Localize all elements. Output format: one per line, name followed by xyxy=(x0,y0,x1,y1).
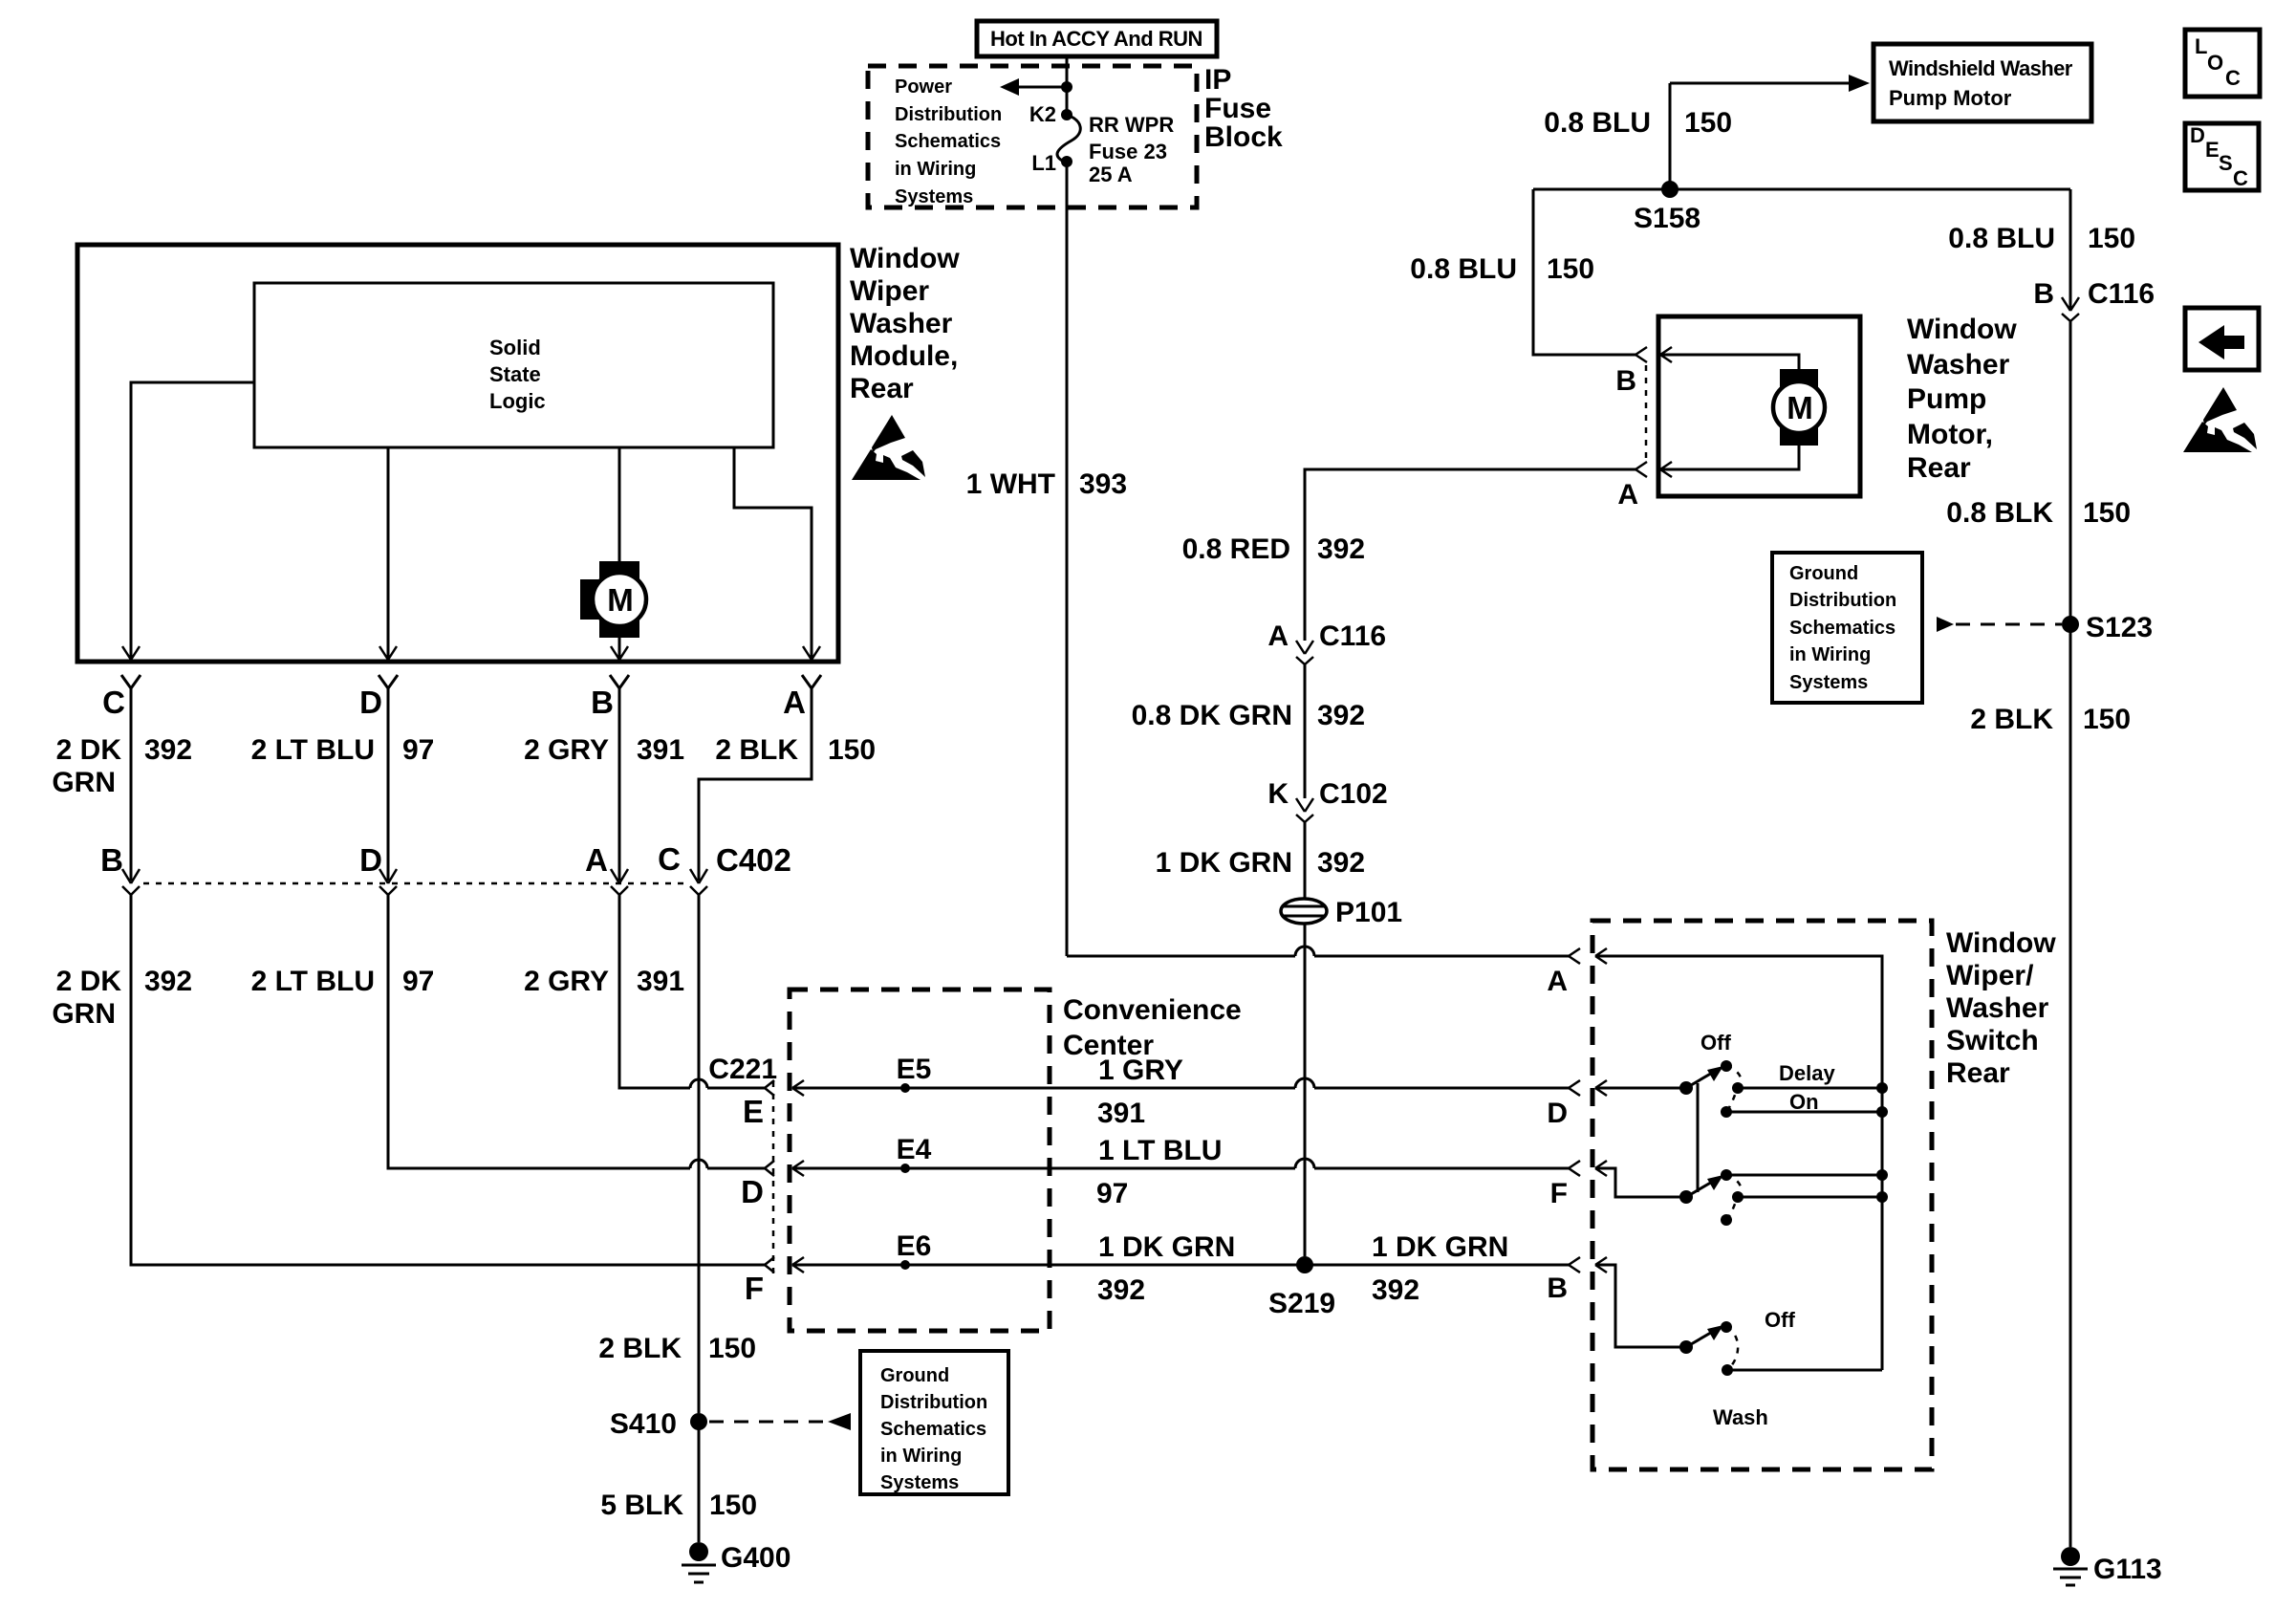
box Hot In ACCY And RUN xyxy=(977,21,1217,56)
wire 2 DK GRN 392 (C to C402-B) xyxy=(130,688,133,881)
dotted arc wash contacts xyxy=(1726,1327,1738,1370)
svg-text:0.8 RED: 0.8 RED xyxy=(1182,533,1290,565)
svg-text:Rear: Rear xyxy=(850,373,914,404)
svg-text:Distribution: Distribution xyxy=(895,104,1002,125)
wire 1 DK GRN 392 xyxy=(1304,822,1307,899)
contact Off (wash) xyxy=(1721,1308,1795,1333)
icon back-arrow box xyxy=(2185,308,2259,370)
svg-text:E: E xyxy=(2205,138,2220,162)
connector C221 pin F xyxy=(745,1257,774,1306)
svg-text:Washer: Washer xyxy=(1907,349,2010,381)
ground G113 xyxy=(2053,1547,2162,1585)
svg-text:Off: Off xyxy=(1700,1031,1731,1055)
svg-text:Module,: Module, xyxy=(850,340,958,372)
wire riser from S158 xyxy=(1669,83,1672,189)
svg-text:A: A xyxy=(585,842,608,878)
connector pin A (pump motor) xyxy=(1617,462,1647,511)
svg-text:150: 150 xyxy=(1684,107,1732,139)
svg-text:0.8 BLU: 0.8 BLU xyxy=(1544,107,1651,139)
svg-text:97: 97 xyxy=(1096,1178,1128,1209)
svg-text:Ground: Ground xyxy=(1789,563,1858,584)
svg-text:B: B xyxy=(1615,365,1636,397)
svg-text:Switch: Switch xyxy=(1946,1025,2039,1056)
svg-text:Window: Window xyxy=(850,243,960,274)
wire 2 LT BLU 97 (D to C402-D) xyxy=(387,688,390,881)
svg-text:E5: E5 xyxy=(897,1054,932,1085)
svg-text:392: 392 xyxy=(1097,1274,1145,1306)
svg-text:Pump: Pump xyxy=(1907,383,1986,415)
node S410 xyxy=(610,1408,707,1440)
label 1 DK GRN 392 (left of S219) xyxy=(1097,1231,1235,1306)
svg-text:Window: Window xyxy=(1907,314,2017,345)
svg-text:GRN: GRN xyxy=(52,767,116,798)
wire pump internal B xyxy=(1660,347,1799,381)
ground distribution reference box (left) xyxy=(860,1351,1008,1494)
connector C102 pin K xyxy=(1267,778,1387,822)
svg-text:Windshield Washer: Windshield Washer xyxy=(1889,56,2073,80)
contact On xyxy=(1721,1090,1882,1118)
svg-text:Motor,: Motor, xyxy=(1907,419,1993,450)
connector dashed line between pump pins xyxy=(1645,365,1648,460)
svg-text:A: A xyxy=(783,685,806,720)
svg-text:2 DK: 2 DK xyxy=(56,734,122,766)
wire 1 DK GRN below P101 to S219 xyxy=(1304,924,1307,1256)
node wiper switch common 1 xyxy=(1679,1081,1693,1095)
connector C221 pin E xyxy=(743,1080,774,1129)
connector Y pin A below module xyxy=(783,675,821,720)
switch lever 2 xyxy=(1686,1175,1723,1197)
wire arrow to power distribution (left) xyxy=(1000,78,1067,96)
label 2 DK GRN 392 xyxy=(52,734,192,798)
svg-text:392: 392 xyxy=(1317,533,1365,565)
connector C402 pin A xyxy=(585,842,628,895)
svg-text:391: 391 xyxy=(637,966,684,997)
svg-text:Off: Off xyxy=(1765,1308,1795,1332)
wire switch pin B internal xyxy=(1595,1257,1686,1347)
svg-text:97: 97 xyxy=(402,966,434,997)
wire row E4 1 LT BLU 97 xyxy=(792,1159,1569,1176)
svg-text:Systems: Systems xyxy=(895,186,973,207)
contact low (pole 2) xyxy=(1721,1214,1732,1226)
svg-text:2 LT BLU: 2 LT BLU xyxy=(251,734,375,766)
connector switch pin D xyxy=(1547,1080,1580,1129)
svg-text:Block: Block xyxy=(1204,121,1283,153)
wire row E6 1 DK GRN 392 xyxy=(792,1257,1569,1273)
svg-text:P101: P101 xyxy=(1335,897,1402,928)
label RR WPR Fuse 23 25 A xyxy=(1089,113,1174,186)
switch lever 3 (wash) xyxy=(1686,1325,1723,1347)
svg-text:On: On xyxy=(1789,1090,1819,1114)
wire arrow to windshield washer pump motor xyxy=(1670,75,1870,92)
node E5 xyxy=(897,1054,932,1093)
svg-text:2 GRY: 2 GRY xyxy=(524,966,609,997)
svg-text:5 BLK: 5 BLK xyxy=(600,1490,683,1521)
svg-text:C102: C102 xyxy=(1319,778,1388,810)
svg-text:K2: K2 xyxy=(1029,102,1056,126)
svg-text:Wiper/: Wiper/ xyxy=(1946,960,2034,991)
box Window Wiper Washer Module Rear xyxy=(77,245,838,662)
svg-text:E6: E6 xyxy=(897,1230,932,1262)
wire row E5 1 GRY 391 xyxy=(792,1078,1569,1096)
svg-text:Window: Window xyxy=(1946,927,2056,959)
wire 0.8 RED 392 from pump A xyxy=(1305,469,1635,641)
svg-text:0.8 BLK: 0.8 BLK xyxy=(1946,497,2053,529)
svg-text:S219: S219 xyxy=(1268,1288,1335,1319)
connector C402 pin B xyxy=(100,842,140,895)
node S123 xyxy=(2062,612,2153,643)
wire pump internal A xyxy=(1660,435,1799,477)
wire 1 WHT 393 vertical from fuse L1 xyxy=(1066,162,1069,956)
icon ESD warning (right margin) xyxy=(2183,387,2257,452)
svg-text:C402: C402 xyxy=(716,842,791,878)
wire 2 GRY 391 (C402-A down to row E) xyxy=(619,895,765,1088)
label 0.8 BLU 150 (right column) xyxy=(1948,223,2135,254)
label 2 BLK 150 (right column) xyxy=(1970,704,2131,735)
svg-text:Pump Motor: Pump Motor xyxy=(1889,86,2012,110)
wire 2 DK GRN 392 (C402-B down to row F) xyxy=(131,895,765,1265)
svg-text:D: D xyxy=(359,842,382,878)
svg-text:Fuse 23: Fuse 23 xyxy=(1089,140,1167,163)
wire 5 BLK 150 xyxy=(698,1422,701,1542)
label 1 GRY 391 xyxy=(1097,1055,1183,1129)
wire 0.8 DK GRN 392 xyxy=(1304,664,1307,798)
dotted arc wiper contacts xyxy=(1726,1066,1741,1112)
svg-text:150: 150 xyxy=(828,734,876,766)
label 0.8 DK GRN 392 xyxy=(1132,700,1365,731)
svg-text:2 BLK: 2 BLK xyxy=(598,1333,682,1364)
svg-text:392: 392 xyxy=(1372,1274,1419,1306)
wire 1 WHT 393 horizontal to switch A xyxy=(1067,946,1569,956)
svg-text:C116: C116 xyxy=(1319,620,1386,652)
wire 2 BLK 150 (C402-C down to S410) xyxy=(698,895,701,1413)
svg-text:State: State xyxy=(489,362,541,386)
dashed box Window Wiper/Washer Switch Rear xyxy=(1592,921,1932,1469)
contact top (pole 2) xyxy=(1721,1169,1882,1181)
svg-text:D: D xyxy=(2190,123,2205,147)
svg-text:Schematics: Schematics xyxy=(895,131,1001,152)
label Power Distribution Schematics in Wiring Systems xyxy=(895,76,1002,207)
svg-text:Washer: Washer xyxy=(1946,992,2049,1024)
svg-text:C: C xyxy=(658,841,681,877)
svg-text:GRN: GRN xyxy=(52,998,116,1030)
svg-text:S158: S158 xyxy=(1634,203,1700,234)
label 2 BLK 150 xyxy=(715,734,876,766)
svg-text:150: 150 xyxy=(2088,223,2135,254)
svg-text:L: L xyxy=(2195,34,2207,58)
svg-text:A: A xyxy=(1267,620,1289,652)
svg-text:1 GRY: 1 GRY xyxy=(1098,1055,1183,1086)
wire from Hot box to fuse terminal K2 xyxy=(1066,56,1069,115)
label Window Wiper Washer Module, Rear xyxy=(850,243,960,404)
connector switch pin F xyxy=(1550,1161,1580,1209)
svg-text:M: M xyxy=(607,582,634,618)
svg-text:S: S xyxy=(2219,151,2233,175)
connector C221 pin D xyxy=(741,1161,774,1209)
label 0.8 BLU 150 (riser) xyxy=(1544,107,1732,139)
label 2 GRY 391 (second) xyxy=(524,966,684,997)
wire dashed reference to S123 xyxy=(1937,617,2062,632)
connector C221 label xyxy=(708,1054,777,1085)
label Window Washer Pump Motor, Rear xyxy=(1907,314,2017,484)
wire 0.8 BLU 150 right branch down xyxy=(2069,189,2072,311)
ground distribution reference box (right) xyxy=(1772,553,1922,703)
wire module pin D internal xyxy=(379,447,397,660)
svg-text:2 BLK: 2 BLK xyxy=(715,734,798,766)
node wiper switch common 2 xyxy=(1679,1190,1693,1204)
svg-text:in Wiring: in Wiring xyxy=(1789,644,1871,665)
svg-text:Washer: Washer xyxy=(850,308,953,339)
svg-text:1 WHT: 1 WHT xyxy=(966,468,1055,500)
label 1 WHT 393 xyxy=(966,468,1127,500)
svg-text:C116: C116 xyxy=(2088,278,2155,310)
ground G400 xyxy=(682,1542,791,1582)
svg-text:Delay: Delay xyxy=(1779,1061,1835,1085)
node junction above fuse xyxy=(1061,81,1072,93)
contact Delay xyxy=(1732,1061,1882,1094)
svg-text:Rear: Rear xyxy=(1946,1057,2010,1089)
label 0.8 BLU 150 (left branch) xyxy=(1410,253,1594,285)
svg-text:RR WPR: RR WPR xyxy=(1089,113,1174,137)
svg-text:393: 393 xyxy=(1079,468,1127,500)
connector C116 pin B (right column) xyxy=(2033,278,2155,321)
label 2 GRY 391 xyxy=(524,734,684,766)
svg-text:Wash: Wash xyxy=(1713,1405,1768,1429)
node S158 xyxy=(1634,181,1700,234)
label 1 LT BLU 97 xyxy=(1096,1135,1222,1209)
svg-text:Ground: Ground xyxy=(880,1365,949,1386)
wire switch pin A internal to right rail xyxy=(1595,948,1882,1370)
svg-text:O: O xyxy=(2207,51,2223,75)
svg-text:G400: G400 xyxy=(721,1542,791,1574)
svg-text:0.8 BLU: 0.8 BLU xyxy=(1410,253,1517,285)
node wash switch common xyxy=(1679,1340,1693,1354)
svg-text:A: A xyxy=(1617,479,1638,511)
label 5 BLK 150 xyxy=(600,1490,757,1521)
svg-text:A: A xyxy=(1547,966,1568,997)
svg-text:F: F xyxy=(745,1271,764,1306)
node rail dots (pole 2) xyxy=(1876,1169,1888,1203)
wire 2 BLK 150 (A to C402-C) xyxy=(699,688,812,881)
svg-text:1 DK GRN: 1 DK GRN xyxy=(1098,1231,1235,1263)
svg-text:392: 392 xyxy=(144,734,192,766)
wire 0.8 BLK 150 right column xyxy=(2069,321,2072,1547)
svg-text:B: B xyxy=(2033,278,2054,310)
svg-text:1 DK GRN: 1 DK GRN xyxy=(1372,1231,1508,1263)
label 0.8 RED 392 xyxy=(1182,533,1365,565)
label C402 xyxy=(716,842,791,878)
svg-text:L1: L1 xyxy=(1031,151,1056,175)
dashed box Convenience Center xyxy=(790,990,1050,1331)
wire dashed reference from S410 xyxy=(709,1413,851,1430)
wire module pin C internal xyxy=(122,382,254,660)
svg-text:Logic: Logic xyxy=(489,389,546,413)
label 2 BLK 150 (lower left column) xyxy=(598,1333,756,1364)
contact Off (wiper) xyxy=(1700,1031,1732,1072)
svg-text:Rear: Rear xyxy=(1907,452,1971,484)
svg-text:Systems: Systems xyxy=(1789,672,1868,693)
svg-text:S410: S410 xyxy=(610,1408,677,1440)
svg-text:D: D xyxy=(359,685,382,720)
svg-text:97: 97 xyxy=(402,734,434,766)
connector C402 pin D xyxy=(359,842,397,895)
svg-text:0.8 BLU: 0.8 BLU xyxy=(1948,223,2055,254)
svg-text:IP: IP xyxy=(1204,64,1231,96)
svg-text:392: 392 xyxy=(144,966,192,997)
svg-text:in Wiring: in Wiring xyxy=(895,159,976,180)
connector Y pin B below module xyxy=(591,675,629,720)
pin K2 label xyxy=(1029,102,1056,126)
contact mid (pole 2) xyxy=(1732,1191,1882,1203)
svg-text:Schematics: Schematics xyxy=(880,1419,986,1440)
svg-text:S123: S123 xyxy=(2086,612,2153,643)
svg-text:Hot In ACCY And RUN: Hot In ACCY And RUN xyxy=(990,27,1202,51)
wire S158 horizontal bus xyxy=(1533,188,2070,191)
dashed box IP Fuse Block / Power Distribution xyxy=(868,66,1197,207)
fuse F23 RR WPR 25A symbol xyxy=(1057,109,1080,167)
label Convenience Center xyxy=(1063,994,1242,1061)
node E6 xyxy=(897,1230,932,1270)
label 2 LT BLU 97 xyxy=(251,734,435,766)
connector C116 pin A (middle column) xyxy=(1267,620,1386,664)
svg-text:391: 391 xyxy=(637,734,684,766)
wire switch pin D internal xyxy=(1595,1080,1686,1096)
svg-text:Fuse: Fuse xyxy=(1204,93,1271,124)
svg-text:0.8 DK GRN: 0.8 DK GRN xyxy=(1132,700,1292,731)
svg-text:150: 150 xyxy=(709,1490,757,1521)
svg-text:C: C xyxy=(2225,66,2241,90)
svg-text:2 BLK: 2 BLK xyxy=(1970,704,2053,735)
svg-text:in Wiring: in Wiring xyxy=(880,1446,962,1467)
svg-text:Solid: Solid xyxy=(489,336,541,359)
svg-text:1 DK GRN: 1 DK GRN xyxy=(1156,847,1292,879)
svg-text:Distribution: Distribution xyxy=(880,1392,987,1413)
svg-text:B: B xyxy=(1547,1273,1568,1304)
icon DESC box xyxy=(2185,123,2259,190)
svg-text:150: 150 xyxy=(708,1333,756,1364)
svg-text:E4: E4 xyxy=(897,1134,932,1165)
svg-text:150: 150 xyxy=(2083,497,2131,529)
svg-text:1 LT BLU: 1 LT BLU xyxy=(1098,1135,1222,1166)
label 2 DK GRN 392 (second) xyxy=(52,966,192,1030)
svg-text:Distribution: Distribution xyxy=(1789,590,1896,611)
node S219 xyxy=(1268,1256,1335,1319)
motor M (washer pump motor) xyxy=(1773,369,1825,446)
label 1 DK GRN 392 (right of S219) xyxy=(1372,1231,1508,1306)
box Window Washer Pump Motor Rear xyxy=(1658,316,1860,496)
motor M (module wiper motor) xyxy=(580,561,646,638)
contact Wash xyxy=(1713,1364,1882,1429)
svg-text:391: 391 xyxy=(1097,1098,1145,1129)
label IP Fuse Block xyxy=(1204,64,1283,153)
svg-text:C: C xyxy=(2233,166,2248,190)
box Windshield Washer Pump Motor xyxy=(1874,44,2091,121)
svg-text:2 DK: 2 DK xyxy=(56,966,122,997)
connector pin B (pump motor) xyxy=(1615,347,1647,397)
icon ESD warning (module) xyxy=(852,415,925,480)
svg-text:M: M xyxy=(1787,390,1813,425)
svg-text:2 GRY: 2 GRY xyxy=(524,734,609,766)
pin L1 label xyxy=(1031,151,1056,175)
svg-text:D: D xyxy=(741,1174,764,1209)
switch lever 1 (wiper) xyxy=(1686,1066,1723,1088)
svg-text:392: 392 xyxy=(1317,847,1365,879)
wire from motor to module edge xyxy=(611,636,628,660)
node rail dots (wiper) xyxy=(1876,1082,1888,1118)
svg-text:150: 150 xyxy=(1547,253,1594,285)
connector C402 dashed line xyxy=(143,882,686,885)
box Solid State Logic xyxy=(254,283,773,447)
svg-text:Wiper: Wiper xyxy=(850,275,929,307)
svg-text:392: 392 xyxy=(1317,700,1365,731)
connector Y pin D below module xyxy=(359,675,398,720)
svg-text:D: D xyxy=(1547,1098,1568,1129)
svg-text:C221: C221 xyxy=(708,1054,777,1085)
svg-text:K: K xyxy=(1267,778,1289,810)
svg-text:2 LT BLU: 2 LT BLU xyxy=(251,966,375,997)
svg-text:G113: G113 xyxy=(2093,1554,2162,1585)
svg-text:Systems: Systems xyxy=(880,1472,959,1493)
wire module pin A internal xyxy=(734,447,820,660)
svg-text:Convenience: Convenience xyxy=(1063,994,1242,1026)
node E4 xyxy=(897,1134,932,1173)
svg-text:F: F xyxy=(1550,1178,1568,1209)
connector C221 dashed line xyxy=(772,1081,775,1277)
wire module pin B internal (to motor) xyxy=(618,447,621,563)
svg-text:Schematics: Schematics xyxy=(1789,618,1895,639)
svg-text:150: 150 xyxy=(2083,704,2131,735)
svg-text:B: B xyxy=(591,685,614,720)
svg-text:B: B xyxy=(100,842,123,878)
label 0.8 BLK 150 xyxy=(1946,497,2131,529)
wire 0.8 BLU 150 left branch to washer pump B xyxy=(1533,189,1635,355)
icon LOC box xyxy=(2185,30,2260,97)
label 2 LT BLU 97 (second) xyxy=(251,966,435,997)
wire 2 LT BLU 97 (C402-D down to row D) xyxy=(388,895,765,1168)
connector C402 pin C xyxy=(658,841,707,895)
label Window Wiper/ Washer Switch Rear xyxy=(1946,927,2056,1089)
connector switch pin B xyxy=(1547,1257,1580,1304)
connector Y pin C below module xyxy=(102,675,141,720)
svg-text:C: C xyxy=(102,685,125,720)
wire 2 GRY 391 (B to C402-A) xyxy=(618,688,621,881)
grommet P101 xyxy=(1281,897,1402,928)
svg-text:Power: Power xyxy=(895,76,952,98)
svg-text:25 A: 25 A xyxy=(1089,163,1133,186)
svg-text:E: E xyxy=(743,1094,764,1129)
wire mechanical link between poles xyxy=(1697,1083,1700,1192)
label 1 DK GRN 392 xyxy=(1156,847,1365,879)
wire switch pin F internal xyxy=(1595,1161,1686,1197)
dotted arc pole 2 contacts xyxy=(1726,1175,1741,1220)
connector switch pin A xyxy=(1547,948,1580,997)
